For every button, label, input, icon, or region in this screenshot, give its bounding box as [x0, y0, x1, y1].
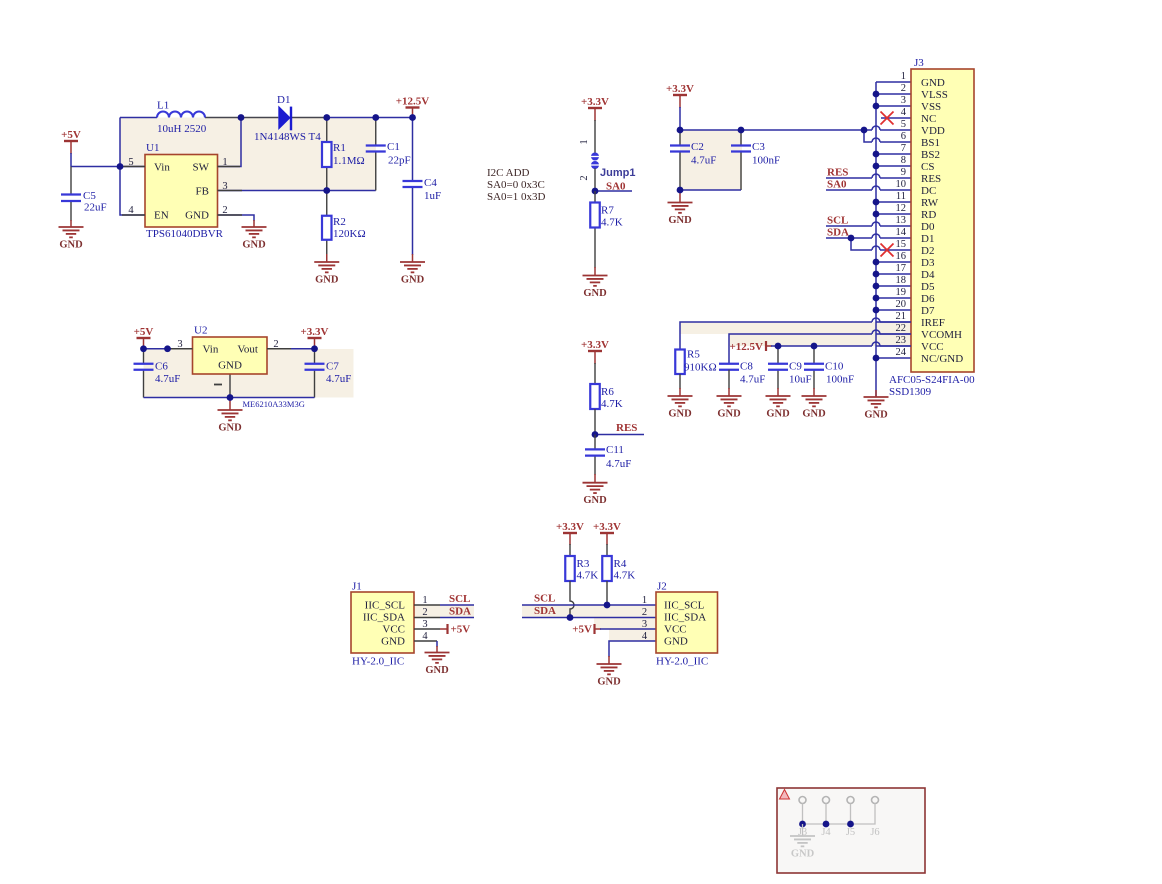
svg-text:C5: C5 — [83, 190, 96, 202]
svg-text:AFC05-S24FIA-00: AFC05-S24FIA-00 — [889, 374, 975, 386]
svg-text:1: 1 — [579, 139, 590, 144]
wire SDA jog to pin15 — [851, 238, 911, 250]
wire IREF to R5 — [680, 322, 911, 350]
wire J3 pin1 to bus — [876, 81, 911, 83]
resistor R1 — [322, 142, 332, 167]
capacitor C6 — [134, 364, 154, 370]
svg-text:4.7uF: 4.7uF — [155, 373, 180, 385]
svg-text:R6: R6 — [601, 386, 614, 398]
svg-text:13: 13 — [896, 215, 907, 226]
resistor R6 — [590, 384, 600, 409]
svg-text:4.7uF: 4.7uF — [691, 155, 716, 167]
svg-text:4.7uF: 4.7uF — [740, 374, 765, 386]
wire U1 GND pin 2 to ground — [218, 215, 255, 227]
svg-text:4.7K: 4.7K — [577, 570, 599, 582]
wire VCOMH to C8 — [729, 334, 911, 364]
svg-text:L1: L1 — [157, 100, 169, 112]
U2 minus mark — [214, 384, 222, 386]
red X no-connect pin15 — [881, 244, 894, 257]
svg-text:11: 11 — [896, 191, 906, 202]
U2 pin numbers — [177, 339, 278, 350]
svg-text:+3.3V: +3.3V — [593, 521, 621, 533]
svg-text:C2: C2 — [691, 141, 704, 153]
svg-text:14: 14 — [896, 227, 907, 238]
warning triangle — [780, 790, 790, 800]
svg-text:C11: C11 — [606, 444, 624, 456]
mounting hole dots — [799, 821, 854, 828]
U2 pin names — [203, 344, 259, 372]
svg-text:100nF: 100nF — [826, 374, 854, 386]
svg-text:2: 2 — [642, 607, 647, 618]
J1 pin numbers — [422, 595, 428, 642]
svg-text:D0: D0 — [921, 221, 935, 233]
power +3.3V R3 — [569, 533, 571, 545]
svg-text:4.7uF: 4.7uF — [326, 373, 351, 385]
svg-text:U1: U1 — [146, 142, 159, 154]
svg-text:9: 9 — [901, 167, 906, 178]
capacitor C8 — [719, 364, 739, 370]
svg-text:U2: U2 — [194, 325, 207, 337]
svg-text:C9: C9 — [789, 361, 802, 373]
svg-text:C1: C1 — [387, 141, 400, 153]
svg-text:R5: R5 — [687, 349, 700, 361]
svg-text:SCL: SCL — [449, 593, 470, 605]
U1 pin numbers — [128, 157, 227, 216]
svg-text:BS1: BS1 — [921, 137, 940, 149]
svg-text:18: 18 — [896, 275, 907, 286]
svg-text:+12.5V: +12.5V — [730, 341, 764, 353]
svg-text:+12.5V: +12.5V — [396, 96, 430, 108]
J3 pin numbers — [896, 71, 907, 358]
wire U2 GND pin — [229, 374, 231, 398]
svg-text:SDA: SDA — [534, 605, 556, 617]
svg-text:IIC_SDA: IIC_SDA — [363, 612, 405, 624]
node dots U2 — [140, 345, 318, 401]
J3 pin names — [921, 77, 963, 365]
wire J1 SCL — [414, 604, 474, 606]
wire R4 top lead — [606, 544, 608, 556]
svg-text:GND: GND — [802, 409, 826, 420]
svg-text:SA0=0 0x3C: SA0=0 0x3C — [487, 179, 545, 191]
ground U1 pin2 — [242, 227, 267, 237]
ground U2 — [218, 410, 243, 420]
capacitor C9 leads — [777, 346, 779, 396]
svg-text:CS: CS — [921, 161, 934, 173]
svg-text:GND: GND — [218, 423, 242, 434]
svg-text:RES: RES — [616, 422, 637, 434]
svg-text:+3.3V: +3.3V — [556, 521, 584, 533]
resistor R3 — [565, 556, 575, 581]
node dot SDA jog — [848, 235, 855, 242]
U1 pin stubs — [122, 167, 242, 216]
svg-text:3: 3 — [642, 619, 647, 630]
power +5V U2 — [143, 338, 145, 350]
mounting hole circles — [799, 797, 879, 804]
svg-text:D4: D4 — [921, 269, 935, 281]
wire SA0 stub — [595, 190, 632, 192]
svg-text:21: 21 — [896, 311, 907, 322]
wire J1 SDA — [414, 617, 474, 619]
power +5V J2 — [595, 624, 602, 634]
svg-text:GND: GND — [59, 240, 83, 251]
highlight region boost converter — [120, 118, 376, 191]
capacitor C7 — [305, 364, 325, 370]
svg-text:RES: RES — [921, 173, 941, 185]
svg-text:J5: J5 — [846, 827, 855, 838]
svg-text:J4: J4 — [821, 827, 831, 838]
wire RES to J3 pin9 — [826, 177, 911, 179]
svg-text:22: 22 — [896, 323, 907, 334]
mounting hole wires — [803, 804, 876, 825]
ground J1 — [425, 653, 450, 663]
capacitor C4 — [403, 181, 423, 187]
svg-text:+3.3V: +3.3V — [581, 339, 609, 351]
svg-text:NC: NC — [921, 113, 936, 125]
wire +5V to J2 pin3 — [600, 628, 656, 630]
svg-text:D2: D2 — [921, 245, 934, 257]
svg-text:2: 2 — [901, 83, 906, 94]
capacitor C2 leads — [679, 130, 681, 190]
capacitor C9 — [768, 364, 788, 370]
ground C4 — [400, 262, 425, 272]
wire top rail L1 to D1 to +12.5V node — [120, 117, 413, 119]
diode D1 — [278, 106, 291, 131]
wire U2 ground stub — [229, 398, 231, 411]
svg-text:J3: J3 — [914, 57, 924, 69]
capacitor C10 — [804, 364, 824, 370]
svg-text:Jump1: Jump1 — [600, 167, 635, 179]
wire C5 branch — [70, 167, 72, 228]
svg-text:19: 19 — [896, 287, 907, 298]
svg-text:R3: R3 — [577, 558, 590, 570]
wire RES stub — [595, 434, 644, 436]
highlight region U2 regulator — [144, 349, 354, 398]
svg-text:4.7K: 4.7K — [601, 217, 623, 229]
wire jumper pin2 to SA0 node — [594, 168, 596, 191]
connector J2 body — [656, 592, 718, 653]
svg-text:ME6210A33M3G: ME6210A33M3G — [243, 399, 305, 409]
capacitor C2 — [670, 146, 690, 152]
ground mounting holes — [802, 824, 804, 836]
wire J2 GND — [609, 641, 656, 664]
svg-text:+3.3V: +3.3V — [581, 96, 609, 108]
svg-text:IIC_SCL: IIC_SCL — [664, 600, 705, 612]
svg-text:GND: GND — [381, 636, 405, 648]
wire C2 ground stub — [679, 190, 681, 203]
svg-text:2: 2 — [579, 175, 590, 180]
wire SDA to J3 pin14 — [826, 237, 911, 239]
node dots boost — [117, 114, 416, 194]
svg-text:2: 2 — [422, 607, 427, 618]
svg-text:Vin: Vin — [154, 162, 170, 174]
svg-text:BS2: BS2 — [921, 149, 940, 161]
svg-text:GND: GND — [921, 77, 945, 89]
svg-text:R4: R4 — [614, 558, 627, 570]
U1 pin names — [154, 162, 210, 222]
J3 bus dots — [873, 91, 880, 362]
ground R2 — [314, 262, 339, 272]
power +3.3V U2 — [314, 338, 316, 350]
wire VCC rail to J3 pin23 — [771, 345, 911, 347]
svg-text:20: 20 — [896, 299, 907, 310]
svg-text:VCOMH: VCOMH — [921, 329, 962, 341]
svg-text:24: 24 — [896, 347, 907, 358]
wire R6 bottom to RES node — [594, 409, 596, 435]
wire J1 VCC to +5V — [414, 628, 448, 630]
connector J1 body — [351, 592, 414, 653]
IC U1 TPS61040DBVR body — [145, 155, 218, 228]
svg-text:4.7K: 4.7K — [601, 398, 623, 410]
wire +5V to U1 Vin pin 5 — [71, 166, 145, 168]
highlight region J2 wires — [522, 605, 656, 641]
svg-text:D5: D5 — [921, 281, 935, 293]
wire R6 top lead — [594, 363, 596, 384]
svg-text:IREF: IREF — [921, 317, 945, 329]
resistor R2 — [322, 216, 332, 240]
J1 pin names — [363, 600, 405, 648]
svg-text:R2: R2 — [333, 216, 346, 228]
svg-text:+5V: +5V — [572, 624, 592, 636]
svg-text:J1: J1 — [352, 581, 362, 593]
wire left vertical to EN — [120, 118, 145, 216]
capacitor C10 leads — [813, 346, 815, 396]
svg-text:GND: GND — [242, 240, 266, 251]
svg-text:DC: DC — [921, 185, 936, 197]
power +12.5V VCC — [766, 341, 772, 351]
wire hop arcs over bus — [872, 126, 880, 346]
J2 pin names — [664, 600, 706, 648]
svg-text:1.1MΩ: 1.1MΩ — [333, 155, 365, 167]
svg-text:1: 1 — [901, 71, 906, 82]
svg-text:IIC_SCL: IIC_SCL — [365, 600, 406, 612]
svg-text:VLSS: VLSS — [921, 89, 948, 101]
capacitor C6 leads — [143, 349, 145, 398]
ground J2 — [597, 664, 622, 674]
svg-text:12: 12 — [896, 203, 907, 214]
J2 pin numbers — [642, 595, 648, 642]
svg-text:R1: R1 — [333, 142, 346, 154]
ground C5 — [59, 227, 84, 237]
svg-text:5: 5 — [901, 119, 906, 130]
svg-text:+3.3V: +3.3V — [301, 326, 329, 338]
svg-text:+5V: +5V — [134, 326, 154, 338]
capacitor C3 — [731, 146, 751, 152]
wire +5V to U2 Vin — [144, 348, 193, 350]
svg-text:VSS: VSS — [921, 101, 941, 113]
svg-text:4.7K: 4.7K — [614, 570, 636, 582]
wire R4 lead to SCL — [606, 581, 608, 605]
svg-text:SA0=1 0x3D: SA0=1 0x3D — [487, 191, 546, 203]
svg-text:GND: GND — [864, 410, 888, 421]
svg-text:1: 1 — [642, 595, 647, 606]
mounting hole labels — [798, 827, 880, 838]
wire VDD rail to J3 pin5 — [680, 129, 911, 131]
jumper pin numbers — [579, 139, 590, 180]
svg-text:TPS61040DBVR: TPS61040DBVR — [146, 228, 224, 240]
ground C2 — [668, 203, 693, 213]
wire SCL to J2 pin1 — [522, 604, 656, 606]
svg-text:I2C ADD: I2C ADD — [487, 167, 530, 179]
wire J1 GND — [414, 641, 437, 653]
svg-text:J2: J2 — [657, 581, 667, 593]
svg-text:1uF: 1uF — [424, 190, 441, 202]
svg-text:GND: GND — [218, 360, 242, 372]
svg-text:1N4148WS T4: 1N4148WS T4 — [254, 131, 321, 143]
svg-text:EN: EN — [154, 210, 169, 222]
svg-text:23: 23 — [896, 335, 907, 346]
svg-text:D3: D3 — [921, 257, 935, 269]
svg-text:C7: C7 — [326, 361, 339, 373]
svg-text:SSD1309: SSD1309 — [889, 386, 932, 398]
power +3.3V R6 column — [594, 351, 596, 364]
svg-text:+5V: +5V — [451, 624, 471, 636]
power +5V J1 — [446, 624, 448, 634]
svg-text:+5V: +5V — [61, 129, 81, 141]
svg-text:910KΩ: 910KΩ — [684, 362, 717, 374]
wire jumper pin1 — [594, 120, 596, 153]
svg-text:6: 6 — [901, 131, 906, 142]
wire R3 lead to SDA with hop — [570, 581, 574, 618]
svg-text:100nF: 100nF — [752, 155, 780, 167]
svg-text:22uF: 22uF — [84, 202, 107, 214]
J3 pin stubs — [876, 94, 911, 358]
svg-text:C3: C3 — [752, 141, 765, 153]
svg-text:J6: J6 — [870, 827, 879, 838]
power +3.3V C2 column — [679, 95, 681, 130]
inductor L1 — [157, 112, 205, 118]
svg-text:GND: GND — [668, 409, 692, 420]
wire SDA to J2 pin2 — [522, 617, 656, 619]
svg-text:GND: GND — [315, 275, 339, 286]
resistor R5 — [675, 350, 685, 375]
wire R1 leads — [326, 118, 328, 191]
svg-text:RD: RD — [921, 209, 936, 221]
svg-text:RW: RW — [921, 197, 939, 209]
svg-text:22pF: 22pF — [388, 155, 411, 167]
capacitor C11 — [585, 449, 605, 455]
svg-text:NC/GND: NC/GND — [921, 353, 963, 365]
ground R5 — [668, 396, 693, 406]
svg-text:SW: SW — [193, 162, 210, 174]
svg-text:D1: D1 — [921, 233, 934, 245]
svg-text:SDA: SDA — [449, 606, 471, 618]
svg-text:7: 7 — [901, 143, 906, 154]
svg-text:D6: D6 — [921, 293, 935, 305]
svg-text:C10: C10 — [825, 361, 844, 373]
node dot SA0 — [592, 188, 599, 195]
note I2C address — [487, 167, 546, 203]
node dots C2 C3 — [677, 127, 868, 194]
svg-text:120KΩ: 120KΩ — [333, 228, 366, 240]
wire SA0 to J3 pin10 — [826, 189, 911, 191]
svg-text:VCC: VCC — [382, 624, 405, 636]
svg-text:+3.3V: +3.3V — [666, 83, 694, 95]
svg-text:RES: RES — [827, 167, 848, 179]
ground R7 — [583, 276, 608, 286]
wire SW pin 1 up to top rail — [218, 118, 242, 167]
resistor R7 leads — [594, 191, 596, 276]
wire U2 Vout to +3.3V — [267, 348, 315, 350]
svg-text:VCC: VCC — [921, 341, 944, 353]
wire C2 C3 bottom join — [680, 189, 741, 191]
svg-text:SA0: SA0 — [827, 179, 847, 191]
svg-text:Vout: Vout — [237, 344, 258, 356]
wire FB pin 3 to R1 R2 C1 — [218, 190, 376, 192]
svg-text:GND: GND — [597, 677, 621, 688]
power +12.5V — [412, 108, 414, 118]
svg-text:HY-2.0_IIC: HY-2.0_IIC — [352, 656, 404, 668]
U2 pin stubs — [168, 348, 292, 350]
wire R3 top lead — [569, 544, 571, 556]
svg-text:8: 8 — [901, 155, 906, 166]
connector J3 body — [911, 69, 974, 372]
wire R2 leads — [326, 191, 328, 263]
node dot RES — [592, 431, 599, 438]
node dot R4 SCL — [604, 602, 611, 609]
svg-text:SCL: SCL — [534, 593, 555, 605]
ground J3 bus — [875, 390, 877, 397]
IC U2 ME6210 body — [193, 337, 268, 374]
svg-text:GND: GND — [425, 665, 449, 676]
wire C4 leads — [412, 118, 414, 263]
ground C9 — [766, 396, 791, 406]
red X no-connect pin4 — [881, 112, 894, 125]
svg-text:17: 17 — [896, 263, 907, 274]
wire +5V stub — [70, 141, 72, 167]
svg-text:GND: GND — [664, 636, 688, 648]
svg-text:GND: GND — [583, 288, 607, 299]
svg-text:VDD: VDD — [921, 125, 945, 137]
svg-text:IIC_SDA: IIC_SDA — [664, 612, 706, 624]
wire SCL to J3 pin13 — [826, 225, 911, 227]
svg-text:16: 16 — [896, 251, 907, 262]
ground C8 — [717, 396, 742, 406]
mounting holes box — [777, 788, 925, 873]
svg-text:C4: C4 — [424, 177, 437, 189]
wire BS1 jog — [864, 130, 911, 142]
power +3.3V R4 — [606, 533, 608, 545]
svg-text:D1: D1 — [277, 94, 290, 106]
svg-text:Vin: Vin — [203, 344, 219, 356]
power +5V — [64, 140, 78, 142]
svg-text:C6: C6 — [155, 361, 168, 373]
highlight region C2 C3 — [680, 130, 742, 190]
svg-text:10uH 2520: 10uH 2520 — [157, 123, 207, 135]
svg-text:FB: FB — [196, 186, 209, 198]
power +3.3V jumper column — [594, 108, 596, 121]
wire C8 ground — [728, 370, 730, 396]
ground C11 — [583, 483, 608, 493]
svg-text:GND: GND — [668, 215, 692, 226]
svg-text:SDA: SDA — [827, 227, 849, 239]
svg-text:GND: GND — [185, 210, 209, 222]
capacitor C5 — [61, 195, 81, 202]
svg-text:4: 4 — [901, 107, 907, 118]
wire R5 ground — [679, 374, 681, 396]
capacitor C7 leads — [314, 349, 316, 398]
svg-text:GND: GND — [766, 409, 790, 420]
svg-text:C8: C8 — [740, 361, 753, 373]
svg-text:15: 15 — [896, 239, 907, 250]
svg-text:GND: GND — [717, 409, 741, 420]
svg-text:4.7uF: 4.7uF — [606, 458, 631, 470]
svg-text:3: 3 — [901, 95, 906, 106]
svg-text:4: 4 — [642, 631, 648, 642]
jumper Jump1 — [591, 153, 599, 170]
wire C1 leads — [375, 118, 377, 191]
capacitor C3 leads — [740, 130, 742, 190]
svg-text:D7: D7 — [921, 305, 935, 317]
